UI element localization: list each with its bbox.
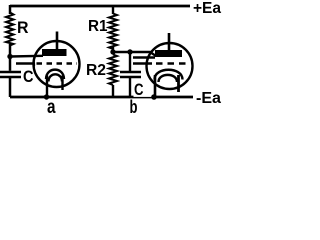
tube V2 grid dashes [156, 62, 190, 64]
wire R1 top [112, 5, 114, 14]
tube V2 heater [159, 75, 178, 82]
resistor R1 [109, 14, 117, 50]
tube V2 cathode leg to rail [154, 75, 157, 97]
tube V2 cathode [155, 70, 183, 80]
wire R1 to node [112, 47, 114, 53]
tube V2 envelope [147, 43, 193, 89]
wire node to V2 plate [113, 51, 151, 53]
wire capacitor to bottom rail [9, 78, 12, 97]
tube V1 envelope [34, 41, 80, 87]
resistor R [6, 13, 14, 46]
bottom power rail -Ea [10, 96, 193, 99]
tube V2 grid lead [133, 62, 152, 64]
top power rail +Ea [10, 5, 190, 8]
svg-text:b: b [130, 97, 138, 114]
wire R to capacitor C [9, 44, 12, 71]
junction node b [151, 94, 157, 100]
svg-text:R2: R2 [86, 62, 106, 79]
capacitor C left plates [0, 71, 21, 74]
wire C2 bottom lead [129, 78, 131, 97]
junction node R1-R2 [110, 49, 115, 54]
junction node C2 [127, 49, 132, 54]
tube V1 anode plate [42, 49, 67, 56]
tube V1 cathode leg to rail [46, 76, 48, 98]
tube V2 upper grid lead [133, 56, 155, 58]
tube V1 grid dashes [37, 62, 78, 64]
svg-text:R1: R1 [88, 18, 108, 35]
tube V1 heater [49, 74, 63, 81]
junction node a [44, 94, 49, 99]
wire left branch top [9, 5, 12, 14]
tube V2 anode plate [155, 50, 182, 57]
wire grid lead of V1 from node [10, 55, 43, 58]
tube V1 right leg [61, 76, 63, 91]
svg-text:-Ea: -Ea [196, 90, 221, 107]
tube V2 anode lead stub [168, 33, 171, 51]
capacitor C right plates [120, 71, 141, 74]
svg-text:+Ea: +Ea [193, 0, 221, 17]
junction node R-C-grid [7, 54, 12, 59]
tube V1 anode lead stub [56, 32, 59, 52]
tube V1 grid lead [16, 62, 35, 64]
label C right background box [134, 92, 153, 97]
svg-text:a: a [47, 97, 56, 114]
tube V1 cathode [46, 70, 64, 79]
svg-text:C: C [23, 67, 34, 86]
svg-text:R: R [17, 18, 29, 37]
wire R2 to bottom rail [112, 85, 114, 97]
wire C2 top lead [129, 52, 131, 71]
resistor R2 [109, 55, 117, 86]
tube V2 right leg [177, 75, 180, 92]
